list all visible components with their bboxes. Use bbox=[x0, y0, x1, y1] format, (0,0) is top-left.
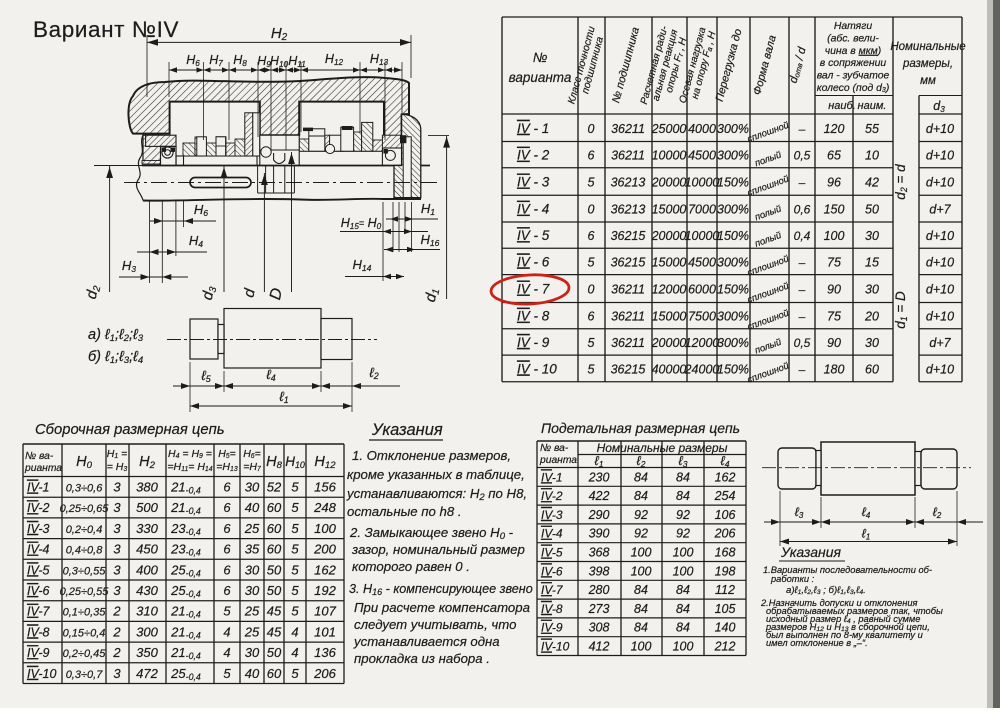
svg-text:230: 230 bbox=[588, 470, 610, 484]
svg-text:–: – bbox=[798, 362, 806, 376]
svg-text:7500: 7500 bbox=[688, 310, 716, 324]
svg-text:3: 3 bbox=[113, 521, 121, 536]
svg-text:36213: 36213 bbox=[611, 176, 646, 190]
svg-text:рианта: рианта bbox=[539, 455, 577, 466]
svg-text:5: 5 bbox=[291, 666, 299, 681]
svg-text:330: 330 bbox=[136, 521, 158, 536]
svg-text:IV - 1: IV - 1 bbox=[517, 121, 549, 136]
svg-text:136: 136 bbox=[314, 645, 336, 660]
svg-text:300%: 300% bbox=[717, 122, 749, 136]
svg-text:Вариант №IV: Вариант №IV bbox=[33, 17, 179, 42]
svg-text:42: 42 bbox=[865, 176, 879, 190]
svg-text:6: 6 bbox=[588, 149, 595, 163]
svg-text:варианта: варианта bbox=[509, 70, 572, 85]
svg-text:300: 300 bbox=[136, 624, 158, 639]
svg-text:5: 5 bbox=[223, 666, 231, 681]
svg-text:92: 92 bbox=[634, 508, 648, 522]
svg-text:84: 84 bbox=[676, 583, 690, 597]
svg-text:40: 40 bbox=[245, 500, 260, 515]
svg-text:IV-4: IV-4 bbox=[541, 527, 563, 541]
svg-text:60: 60 bbox=[267, 521, 282, 536]
svg-text:IV-1: IV-1 bbox=[27, 481, 49, 495]
svg-text:Сборочная размерная цепь: Сборочная размерная цепь bbox=[35, 422, 225, 438]
svg-text:3: 3 bbox=[113, 666, 121, 681]
svg-text:50: 50 bbox=[267, 645, 282, 660]
svg-text:d+10: d+10 bbox=[926, 176, 954, 190]
svg-text:2: 2 bbox=[112, 645, 121, 660]
svg-text:273: 273 bbox=[588, 602, 610, 616]
svg-text:60: 60 bbox=[267, 666, 282, 681]
svg-text:–: – bbox=[798, 122, 806, 136]
svg-text:размеры,: размеры, bbox=[902, 58, 953, 70]
svg-text:10000: 10000 bbox=[652, 149, 687, 163]
svg-text:112: 112 bbox=[715, 583, 735, 597]
svg-text:55: 55 bbox=[865, 122, 879, 136]
svg-text:IV - 2: IV - 2 bbox=[517, 148, 550, 163]
svg-text:IV-3: IV-3 bbox=[27, 522, 50, 536]
svg-text:5: 5 bbox=[588, 336, 595, 350]
svg-text:40000: 40000 bbox=[652, 362, 687, 376]
svg-text:10: 10 bbox=[865, 149, 879, 163]
svg-text:6: 6 bbox=[223, 500, 231, 515]
svg-text:398: 398 bbox=[589, 564, 610, 578]
svg-text:0,25÷0,55: 0,25÷0,55 bbox=[60, 586, 110, 598]
svg-text:d+10: d+10 bbox=[926, 149, 954, 163]
svg-text:мм: мм bbox=[920, 75, 936, 87]
svg-text:30: 30 bbox=[245, 562, 260, 577]
svg-text:36211: 36211 bbox=[611, 336, 645, 350]
svg-text:имел отклонение в „–“.: имел отклонение в „–“. bbox=[766, 638, 868, 648]
svg-text:20000: 20000 bbox=[651, 176, 687, 190]
svg-text:101: 101 bbox=[314, 624, 336, 639]
svg-text:5: 5 bbox=[291, 480, 299, 495]
svg-text:10000: 10000 bbox=[685, 229, 720, 243]
svg-text:50: 50 bbox=[267, 583, 282, 598]
svg-text:4500: 4500 bbox=[688, 255, 716, 269]
svg-text:Подетальная размерная цепь: Подетальная размерная цепь bbox=[541, 420, 740, 436]
svg-text:1. Отклонение размеров,: 1. Отклонение размеров, bbox=[352, 448, 511, 463]
svg-text:остальные по h8 .: остальные по h8 . bbox=[347, 504, 462, 519]
svg-text:25: 25 bbox=[244, 521, 260, 536]
svg-text:20: 20 bbox=[864, 310, 879, 324]
svg-text:90: 90 bbox=[827, 283, 841, 297]
svg-text:300%: 300% bbox=[717, 336, 749, 350]
svg-text:0,5: 0,5 bbox=[794, 336, 811, 350]
svg-text:140: 140 bbox=[715, 621, 736, 635]
svg-text:15000: 15000 bbox=[652, 203, 687, 217]
svg-text:84: 84 bbox=[634, 489, 648, 503]
svg-text:162: 162 bbox=[715, 470, 736, 484]
svg-text:100: 100 bbox=[824, 229, 845, 243]
svg-text:254: 254 bbox=[714, 489, 736, 503]
svg-text:0: 0 bbox=[588, 283, 595, 297]
svg-text:30: 30 bbox=[865, 283, 879, 297]
svg-text:в сопряжении: в сопряжении bbox=[820, 58, 887, 69]
svg-text:0,1÷0,35: 0,1÷0,35 bbox=[63, 607, 107, 619]
svg-text:d+10: d+10 bbox=[926, 362, 954, 376]
svg-text:50: 50 bbox=[267, 562, 282, 577]
svg-text:96: 96 bbox=[827, 176, 841, 190]
svg-text:рианта: рианта bbox=[24, 463, 62, 474]
svg-text:5: 5 bbox=[291, 604, 299, 619]
svg-text:IV-10: IV-10 bbox=[27, 667, 56, 681]
svg-text:25000: 25000 bbox=[651, 122, 687, 136]
svg-text:0: 0 bbox=[588, 122, 595, 136]
svg-text:100: 100 bbox=[673, 640, 694, 654]
svg-text:36213: 36213 bbox=[611, 203, 646, 217]
svg-text:б) ℓ1;ℓ3;ℓ4: б) ℓ1;ℓ3;ℓ4 bbox=[88, 349, 143, 366]
svg-text:3: 3 bbox=[113, 562, 121, 577]
svg-text:5: 5 bbox=[291, 542, 299, 557]
svg-text:300%: 300% bbox=[717, 310, 749, 324]
svg-text:0,15÷0,4: 0,15÷0,4 bbox=[63, 627, 106, 639]
svg-text:чина в мкм): чина в мкм) bbox=[825, 46, 881, 57]
svg-text:5: 5 bbox=[291, 521, 299, 536]
svg-text:колесо (под d3): колесо (под d3) bbox=[817, 83, 890, 94]
svg-text:40: 40 bbox=[245, 666, 260, 681]
svg-text:3: 3 bbox=[113, 583, 121, 598]
svg-text:65: 65 bbox=[827, 149, 841, 163]
svg-text:45: 45 bbox=[267, 624, 282, 639]
svg-text:84: 84 bbox=[634, 470, 648, 484]
svg-text:IV - 9: IV - 9 bbox=[517, 335, 550, 350]
svg-text:устанавливаются: H2 по H8,: устанавливаются: H2 по H8, bbox=[346, 486, 527, 503]
svg-text:№ ва-: № ва- bbox=[540, 443, 569, 454]
svg-text:30: 30 bbox=[245, 480, 260, 495]
svg-text:5: 5 bbox=[291, 562, 299, 577]
svg-text:0,6: 0,6 bbox=[794, 203, 811, 217]
svg-text:308: 308 bbox=[589, 621, 610, 635]
svg-text:45: 45 bbox=[267, 604, 282, 619]
svg-text:Указания: Указания bbox=[780, 544, 842, 560]
svg-text:35: 35 bbox=[245, 542, 260, 557]
svg-text:300%: 300% bbox=[717, 149, 749, 163]
svg-text:IV-5: IV-5 bbox=[541, 546, 563, 560]
svg-text:H4 = H9 =: H4 = H9 = bbox=[168, 448, 212, 460]
svg-text:84: 84 bbox=[676, 489, 690, 503]
svg-text:248: 248 bbox=[313, 500, 336, 515]
svg-text:4: 4 bbox=[291, 624, 298, 639]
svg-text:84: 84 bbox=[634, 583, 648, 597]
svg-text:Номинальные: Номинальные bbox=[890, 41, 965, 53]
svg-text:120: 120 bbox=[824, 122, 845, 136]
svg-text:3: 3 bbox=[113, 542, 121, 557]
svg-text:422: 422 bbox=[589, 489, 610, 503]
svg-text:15000: 15000 bbox=[652, 255, 687, 269]
svg-text:10000: 10000 bbox=[685, 176, 720, 190]
svg-text:IV-9: IV-9 bbox=[541, 621, 563, 635]
svg-text:0,4: 0,4 bbox=[794, 229, 811, 243]
svg-text:30: 30 bbox=[245, 583, 260, 598]
svg-text:IV-8: IV-8 bbox=[541, 602, 563, 616]
svg-text:6000: 6000 bbox=[688, 283, 716, 297]
svg-text:(абс. вели-: (абс. вели- bbox=[827, 32, 879, 44]
svg-text:15: 15 bbox=[865, 255, 879, 269]
svg-text:IV-10: IV-10 bbox=[541, 640, 570, 654]
svg-text:IV-2: IV-2 bbox=[541, 489, 563, 503]
svg-text:60: 60 bbox=[267, 542, 282, 557]
svg-text:92: 92 bbox=[676, 527, 690, 541]
svg-text:наим.: наим. bbox=[858, 100, 887, 112]
svg-text:150%: 150% bbox=[717, 176, 749, 190]
svg-text:которого равен 0 .: которого равен 0 . bbox=[352, 559, 470, 574]
svg-text:75: 75 bbox=[827, 310, 841, 324]
svg-text:30: 30 bbox=[865, 336, 879, 350]
svg-text:30: 30 bbox=[245, 645, 260, 660]
svg-text:0,5: 0,5 bbox=[794, 149, 811, 163]
svg-text:7000: 7000 bbox=[688, 203, 716, 217]
svg-text:0: 0 bbox=[588, 203, 595, 217]
svg-text:6: 6 bbox=[223, 542, 231, 557]
svg-text:3: 3 bbox=[113, 500, 121, 515]
svg-text:IV-6: IV-6 bbox=[27, 584, 50, 598]
svg-text:5: 5 bbox=[291, 583, 299, 598]
svg-text:Номинальные размеры: Номинальные размеры bbox=[597, 441, 728, 455]
svg-text:300%: 300% bbox=[717, 255, 749, 269]
svg-text:368: 368 bbox=[589, 546, 610, 560]
svg-text:84: 84 bbox=[676, 621, 690, 635]
svg-text:4500: 4500 bbox=[688, 149, 716, 163]
svg-text:IV-9: IV-9 bbox=[27, 646, 50, 660]
svg-text:–: – bbox=[798, 176, 806, 190]
svg-text:Натяги: Натяги bbox=[834, 21, 872, 32]
svg-text:IV-3: IV-3 bbox=[541, 508, 563, 522]
svg-text:36211: 36211 bbox=[611, 122, 645, 136]
svg-text:36211: 36211 bbox=[611, 310, 645, 324]
svg-text:IV - 5: IV - 5 bbox=[517, 228, 550, 243]
svg-text:0,25÷0,65: 0,25÷0,65 bbox=[60, 503, 110, 515]
svg-text:IV - 6: IV - 6 bbox=[517, 254, 550, 269]
svg-text:кроме указанных в таблице,: кроме указанных в таблице, bbox=[347, 467, 525, 482]
svg-text:d+10: d+10 bbox=[926, 283, 954, 297]
svg-text:5: 5 bbox=[223, 604, 231, 619]
svg-text:0,3÷0,55: 0,3÷0,55 bbox=[63, 565, 107, 577]
svg-text:180: 180 bbox=[824, 362, 845, 376]
svg-text:12000: 12000 bbox=[685, 336, 720, 350]
svg-text:290: 290 bbox=[588, 508, 610, 522]
svg-text:d2 = d: d2 = d bbox=[893, 164, 909, 200]
svg-text:0,2÷0,4: 0,2÷0,4 bbox=[66, 524, 103, 536]
svg-text:162: 162 bbox=[314, 562, 336, 577]
svg-text:2: 2 bbox=[112, 624, 121, 639]
svg-text:2. Замыкающее звено H0 -: 2. Замыкающее звено H0 - bbox=[349, 525, 514, 542]
svg-text:36215: 36215 bbox=[611, 255, 646, 269]
svg-text:100: 100 bbox=[631, 564, 652, 578]
svg-text:150%: 150% bbox=[717, 283, 749, 297]
svg-text:следует учитывать, что: следует учитывать, что bbox=[354, 617, 516, 632]
svg-text:5: 5 bbox=[588, 176, 595, 190]
svg-text:0,3÷0,6: 0,3÷0,6 bbox=[66, 483, 104, 495]
svg-text:3: 3 bbox=[113, 480, 121, 495]
svg-text:d+10: d+10 bbox=[926, 122, 954, 136]
svg-text:390: 390 bbox=[589, 527, 610, 541]
svg-text:IV - 8: IV - 8 bbox=[517, 309, 550, 324]
svg-text:100: 100 bbox=[631, 640, 652, 654]
svg-text:IV-5: IV-5 bbox=[27, 563, 50, 577]
svg-text:200: 200 bbox=[313, 542, 336, 557]
svg-text:156: 156 bbox=[314, 480, 336, 495]
svg-text:IV - 3: IV - 3 bbox=[517, 175, 550, 190]
svg-text:IV-8: IV-8 bbox=[27, 625, 50, 639]
svg-text:6: 6 bbox=[223, 583, 231, 598]
svg-text:d+7: d+7 bbox=[929, 203, 951, 217]
svg-text:d+10: d+10 bbox=[926, 255, 954, 269]
svg-text:92: 92 bbox=[676, 508, 690, 522]
svg-text:IV-7: IV-7 bbox=[27, 605, 51, 619]
svg-text:6: 6 bbox=[588, 229, 595, 243]
svg-text:IV-7: IV-7 bbox=[541, 583, 564, 597]
svg-text:75: 75 bbox=[827, 255, 841, 269]
svg-text:IV-6: IV-6 bbox=[541, 564, 563, 578]
svg-text:150: 150 bbox=[824, 203, 845, 217]
svg-text:прокладка из набора .: прокладка из набора . bbox=[354, 651, 490, 666]
svg-text:При расчете компенсатора: При расчете компенсатора bbox=[354, 600, 530, 615]
svg-text:d+10: d+10 bbox=[926, 229, 954, 243]
svg-text:IV-1: IV-1 bbox=[541, 470, 563, 484]
svg-text:20000: 20000 bbox=[651, 229, 687, 243]
svg-text:60: 60 bbox=[267, 500, 282, 515]
svg-text:310: 310 bbox=[136, 604, 158, 619]
svg-text:380: 380 bbox=[136, 480, 158, 495]
svg-text:84: 84 bbox=[634, 602, 648, 616]
svg-text:280: 280 bbox=[588, 583, 610, 597]
svg-text:412: 412 bbox=[589, 640, 610, 654]
svg-text:106: 106 bbox=[715, 508, 736, 522]
svg-text:№: № bbox=[533, 50, 548, 65]
svg-text:198: 198 bbox=[715, 564, 736, 578]
svg-text:IV - 7: IV - 7 bbox=[517, 282, 550, 297]
svg-text:36215: 36215 bbox=[611, 229, 646, 243]
svg-text:90: 90 bbox=[827, 336, 841, 350]
svg-text:20000: 20000 bbox=[651, 336, 687, 350]
svg-text:IV - 4: IV - 4 bbox=[517, 202, 549, 217]
svg-text:0,2÷0,45: 0,2÷0,45 bbox=[63, 648, 107, 660]
svg-text:30: 30 bbox=[865, 229, 879, 243]
svg-text:15000: 15000 bbox=[652, 310, 687, 324]
svg-text:206: 206 bbox=[714, 527, 736, 541]
svg-text:450: 450 bbox=[136, 542, 158, 557]
svg-text:4: 4 bbox=[223, 645, 230, 660]
svg-text:400: 400 bbox=[136, 562, 158, 577]
svg-text:150%: 150% bbox=[717, 229, 749, 243]
svg-text:Указания: Указания bbox=[371, 421, 443, 439]
svg-text:206: 206 bbox=[313, 666, 336, 681]
svg-text:устанавливается одна: устанавливается одна bbox=[353, 634, 500, 649]
svg-text:500: 500 bbox=[136, 500, 158, 515]
svg-text:12000: 12000 bbox=[652, 283, 687, 297]
svg-text:0,4÷0,8: 0,4÷0,8 bbox=[66, 545, 104, 557]
svg-text:100: 100 bbox=[673, 546, 694, 560]
svg-text:а) ℓ1;ℓ2;ℓ3: а) ℓ1;ℓ2;ℓ3 bbox=[88, 327, 144, 344]
svg-text:d+10: d+10 bbox=[926, 310, 954, 324]
svg-text:6: 6 bbox=[223, 562, 231, 577]
svg-text:d+7: d+7 bbox=[929, 336, 951, 350]
svg-text:472: 472 bbox=[136, 666, 158, 681]
svg-text:60: 60 bbox=[865, 362, 879, 376]
svg-text:105: 105 bbox=[715, 602, 736, 616]
svg-text:работки :: работки : bbox=[770, 574, 815, 584]
svg-text:вал - зубчатое: вал - зубчатое bbox=[817, 70, 890, 82]
svg-text:92: 92 bbox=[634, 527, 648, 541]
svg-text:IV-4: IV-4 bbox=[27, 543, 50, 557]
svg-text:–: – bbox=[798, 283, 806, 297]
svg-text:168: 168 bbox=[715, 546, 736, 560]
svg-text:24000: 24000 bbox=[684, 362, 720, 376]
svg-text:4000: 4000 bbox=[688, 122, 716, 136]
svg-text:84: 84 bbox=[634, 621, 648, 635]
svg-text:36215: 36215 bbox=[611, 362, 646, 376]
svg-text:0,3÷0,7: 0,3÷0,7 bbox=[66, 669, 104, 681]
svg-text:25: 25 bbox=[244, 624, 260, 639]
svg-text:5: 5 bbox=[588, 255, 595, 269]
svg-text:100: 100 bbox=[631, 546, 652, 560]
svg-text:52: 52 bbox=[267, 480, 282, 495]
svg-text:100: 100 bbox=[314, 521, 336, 536]
svg-text:84: 84 bbox=[676, 470, 690, 484]
svg-text:2: 2 bbox=[112, 604, 121, 619]
svg-text:25: 25 bbox=[244, 604, 260, 619]
svg-text:наиб.: наиб. bbox=[828, 100, 856, 112]
svg-text:107: 107 bbox=[314, 604, 336, 619]
svg-text:192: 192 bbox=[314, 583, 336, 598]
svg-text:300%: 300% bbox=[717, 203, 749, 217]
svg-text:6: 6 bbox=[223, 521, 231, 536]
svg-text:36211: 36211 bbox=[611, 149, 645, 163]
svg-text:50: 50 bbox=[865, 203, 879, 217]
svg-text:6: 6 bbox=[223, 480, 231, 495]
svg-text:d1 = D: d1 = D bbox=[893, 291, 909, 329]
svg-text:84: 84 bbox=[676, 602, 690, 616]
svg-text:6: 6 bbox=[588, 310, 595, 324]
svg-text:5: 5 bbox=[588, 362, 595, 376]
svg-text:100: 100 bbox=[673, 564, 694, 578]
svg-text:IV-2: IV-2 bbox=[27, 501, 50, 515]
svg-text:4: 4 bbox=[291, 645, 298, 660]
svg-text:430: 430 bbox=[136, 583, 158, 598]
svg-text:350: 350 bbox=[136, 645, 158, 660]
svg-text:150%: 150% bbox=[717, 362, 749, 376]
svg-text:5: 5 bbox=[291, 500, 299, 515]
svg-text:–: – bbox=[798, 310, 806, 324]
svg-text:–: – bbox=[798, 255, 806, 269]
svg-text:212: 212 bbox=[714, 640, 736, 654]
svg-text:IV - 10: IV - 10 bbox=[517, 361, 557, 376]
svg-text:4: 4 bbox=[223, 624, 230, 639]
svg-text:36211: 36211 bbox=[611, 283, 645, 297]
svg-text:№ ва-: № ва- bbox=[25, 451, 54, 462]
svg-text:зазор, номинальный размер: зазор, номинальный размер bbox=[351, 542, 525, 557]
